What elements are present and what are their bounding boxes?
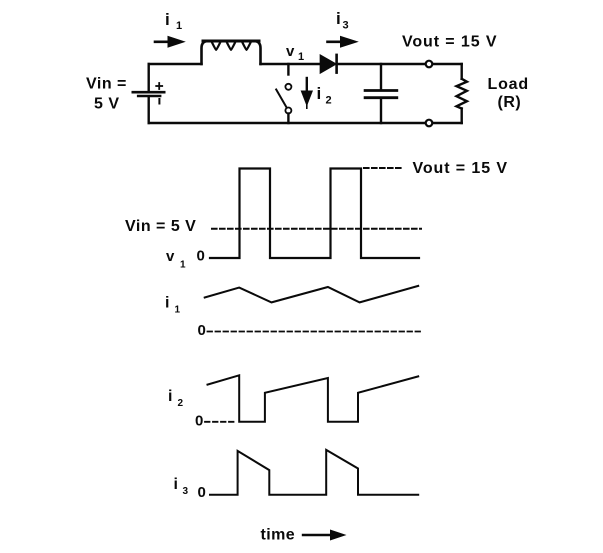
svg-text:i: i (165, 10, 170, 29)
dashed zero stub i2 (205, 421, 237, 423)
svg-text:0: 0 (198, 322, 206, 339)
svg-text:0: 0 (197, 248, 205, 265)
svg-text:time: time (261, 527, 296, 544)
arrow i1 (155, 36, 186, 48)
wire bottom rail (149, 122, 462, 124)
battery minus tick (158, 99, 160, 104)
svg-text:i: i (336, 9, 341, 28)
dashed line Vout level (364, 167, 404, 169)
dashed zero line i1 (208, 331, 421, 333)
svg-text:v: v (166, 248, 175, 265)
arrow i3 (328, 36, 359, 48)
svg-text:2: 2 (326, 95, 332, 107)
output terminal bottom (426, 120, 433, 127)
svg-text:v: v (286, 43, 295, 60)
wire right rail lower (461, 109, 463, 124)
svg-text:i: i (174, 476, 178, 493)
svg-text:5 V: 5 V (94, 96, 120, 113)
svg-text:i: i (168, 388, 172, 405)
output terminal top (426, 61, 433, 68)
svg-text:Vout = 15 V: Vout = 15 V (413, 160, 508, 177)
svg-text:(R): (R) (498, 94, 522, 111)
svg-text:Vout = 15 V: Vout = 15 V (402, 34, 497, 51)
wire diode to output corner (337, 63, 462, 65)
svg-text:1: 1 (176, 20, 182, 32)
waveform i3 (210, 450, 418, 495)
svg-text:0: 0 (198, 484, 206, 501)
wire left rail lower (battery negative to bottom wire) (147, 97, 149, 123)
svg-text:1: 1 (298, 51, 304, 63)
svg-text:i: i (165, 295, 169, 312)
svg-text:Vin = 5 V: Vin = 5 V (125, 218, 196, 235)
diode D1 (320, 55, 336, 73)
wire right rail upper (461, 64, 463, 79)
svg-text:i: i (317, 84, 322, 103)
wire left rail upper (battery positive to top wire) (147, 64, 149, 91)
capacitor C1 (365, 64, 397, 123)
waveform v1 square wave (210, 169, 419, 259)
svg-text:3: 3 (343, 20, 349, 32)
svg-text:0: 0 (195, 413, 203, 430)
svg-text:Vin =: Vin = (86, 76, 127, 93)
svg-text:2: 2 (178, 398, 184, 409)
switch S1 (276, 64, 291, 123)
arrow time axis (303, 530, 347, 541)
inductor L1 (202, 41, 261, 64)
waveform i2 (208, 375, 419, 422)
waveform i1 (205, 286, 419, 303)
dashed line Vin level (212, 228, 421, 230)
svg-text:1: 1 (175, 305, 181, 316)
svg-text:3: 3 (183, 486, 189, 497)
svg-text:1: 1 (180, 260, 186, 271)
wire inductor to diode (node v1) (261, 63, 321, 65)
arrow i2 (down) (301, 78, 313, 108)
resistor R load (457, 79, 467, 109)
battery V1 Vin 5V (133, 92, 164, 96)
svg-text:Load: Load (488, 76, 529, 93)
battery plus sign (156, 83, 162, 89)
wire top-left horizontal (battery to inductor) (149, 63, 202, 65)
